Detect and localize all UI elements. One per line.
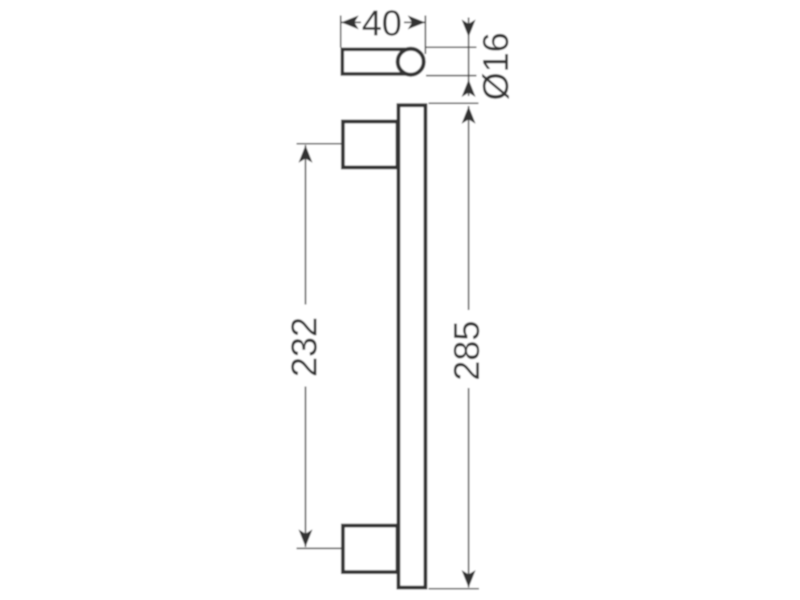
dim O16: upper arrowhead (down): [462, 20, 476, 38]
dim 232: bottom extension line: [297, 547, 342, 549]
dim 40: right extension line: [424, 16, 426, 55]
dim 40: left extension line: [340, 16, 342, 48]
top view: post circle: [398, 49, 424, 75]
side view: top mounting post: [343, 122, 398, 168]
dim 285: top arrowhead (up): [462, 106, 476, 124]
dim O16: label "O16": [482, 34, 509, 99]
dim 40: dimension line left stub: [342, 21, 362, 23]
dim 285: top extension line: [429, 102, 479, 104]
dim O16: lower arrowhead (up): [462, 80, 476, 98]
dim 40: left arrowhead: [341, 15, 359, 29]
dim O16: upper extension line: [426, 46, 477, 48]
dim 285: dimension line upper segment: [468, 106, 470, 310]
dim 40: label "40": [363, 10, 401, 35]
dim 285: label "285": [454, 322, 479, 379]
dim 232: top extension line: [297, 143, 342, 145]
dim 285: bottom extension line: [429, 588, 480, 590]
dim 285: dimension line lower segment: [468, 388, 470, 588]
dim 40: right arrowhead: [408, 15, 426, 29]
dim 232: dimension line lower segment: [305, 387, 307, 548]
dim 232: top arrowhead (up): [299, 145, 313, 163]
top view: grip bar rectangle: [342, 49, 412, 74]
dim 232: dimension line upper segment: [305, 145, 307, 305]
side view: main vertical bar: [398, 105, 425, 587]
dim 285: bottom arrowhead (down): [462, 570, 476, 588]
dim O16: vertical dimension line: [468, 18, 470, 97]
dim 232: bottom arrowhead (down): [299, 529, 313, 547]
dim 40: dimension line right stub: [404, 21, 425, 23]
dim O16: lower extension line: [426, 75, 477, 77]
side view: bottom mounting post: [343, 526, 398, 573]
dim 232: label "232": [291, 319, 316, 375]
